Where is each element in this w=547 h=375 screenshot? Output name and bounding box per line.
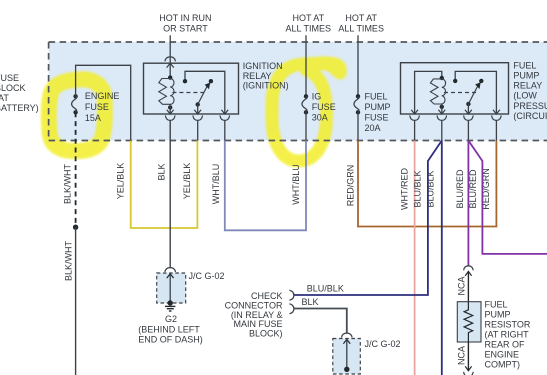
node: splice in right J/C G-02 (344, 367, 349, 372)
svg-text:(BEHIND LEFT: (BEHIND LEFT (138, 325, 200, 335)
switch arm of ignition relay (198, 86, 208, 105)
svg-text:J/C G-02: J/C G-02 (365, 339, 401, 349)
svg-text:PRESSURE: PRESSURE (513, 101, 547, 111)
wire BLK from check connector to J/C G-02 (right) (294, 309, 347, 334)
fuse block dashed border (left edge) (48, 42, 50, 141)
fuse block (hot-at-all-times bus) background (49, 42, 547, 141)
arrow into left J/C G-02 (167, 274, 174, 278)
wire: fuel pump relay switch pivot to pin 3 (467, 104, 469, 114)
wire: engine fuse loop up and over to YEL/BLK drop (76, 65, 131, 140)
svg-text:(AT RIGHT: (AT RIGHT (485, 330, 530, 340)
wire BLU/RED straight down to NCA break (467, 141, 469, 267)
svg-text:FUEL: FUEL (485, 300, 508, 310)
wire: switch pivot down to relay pin 2 (197, 105, 199, 115)
svg-text:FUSE: FUSE (85, 102, 109, 112)
connector arc above right J/C G-02 (342, 333, 353, 337)
svg-text:WHT/BLU: WHT/BLU (291, 164, 301, 205)
svg-text:G2: G2 (165, 314, 177, 324)
node: fuel pump relay switch pivot (466, 102, 470, 106)
coil of ignition relay (159, 75, 174, 109)
svg-text:HOT AT: HOT AT (292, 13, 324, 23)
svg-text:CHECK: CHECK (251, 291, 283, 301)
wire inside right J/C G-02 (346, 339, 348, 369)
label: HOT AT ALL TIMES (left) (286, 13, 332, 34)
wire NCA (lower) (467, 342, 469, 370)
connector (male arrow) at ignition relay top (167, 63, 174, 67)
label: CHECK CONNECTOR (IN RELAY & MAIN FUSE BLOCK) (225, 291, 283, 339)
fuse F1: ENGINE FUSE 15A (72, 94, 78, 114)
svg-text:YEL/BLK: YEL/BLK (182, 163, 192, 200)
wire: ignition relay top rail to bottom pin 3 (185, 71, 225, 114)
svg-text:BLOCK): BLOCK) (249, 329, 283, 339)
ground G2 symbol (165, 306, 175, 311)
relay K1: IGNITION RELAY box (144, 63, 239, 114)
label: HOT AT ALL TIMES (right) (338, 13, 384, 34)
node: ignition relay switch throw contact (209, 79, 213, 83)
wire: fuel pump fuse bottom stub (black inside box) (357, 112, 359, 140)
svg-text:WHT/BLU: WHT/BLU (211, 164, 221, 205)
svg-text:IG: IG (312, 92, 322, 102)
svg-text:NCA: NCA (457, 346, 467, 365)
NCA bottom cup (464, 372, 474, 375)
connector arrows at fuel pump relay bottom pins (410, 110, 501, 121)
svg-text:FUSE: FUSE (365, 113, 389, 123)
node: ground splice in left J/C G-02 (168, 300, 173, 305)
svg-text:BLK: BLK (157, 163, 167, 180)
svg-text:PUMP: PUMP (485, 310, 511, 320)
svg-text:30A: 30A (312, 113, 328, 123)
wire WHT/BLU from ignition relay pin 3 under to IG fuse drop (225, 141, 306, 231)
wire: fuel pump relay rail to pin 1 and coil (415, 71, 442, 114)
connector arc above left J/C G-02 (165, 268, 176, 272)
wire BLU/RED branch right and off page (468, 141, 547, 254)
svg-text:(CIRCUIT: (CIRCUIT (513, 111, 547, 121)
svg-text:BLK/WHT: BLK/WHT (64, 241, 74, 282)
wire: feed from HOT AT ALL TIMES to fuel pump fuse (357, 35, 359, 96)
svg-text:END OF DASH): END OF DASH) (138, 335, 203, 345)
connector (female arc) at ignition relay top (165, 57, 176, 61)
label: ENGINE FUSE 15A (85, 91, 120, 123)
svg-text:REAR OF: REAR OF (485, 340, 526, 350)
svg-text:ENGINE: ENGINE (85, 91, 120, 101)
svg-text:HOT IN RUN: HOT IN RUN (159, 13, 211, 23)
svg-text:J/C G-02: J/C G-02 (189, 271, 225, 281)
connector arrows at ignition relay bottom pins (165, 110, 229, 121)
NCA break: BLU/RED female arc (464, 266, 474, 270)
fuse block dashed border (top edge) (49, 41, 547, 43)
arrow into right J/C G-02 (343, 339, 350, 343)
label: HOT IN RUN OR START (159, 13, 211, 34)
svg-text:20A: 20A (365, 123, 381, 133)
relay K2: FUEL PUMP RELAY box (401, 63, 509, 114)
label: G2 (BEHIND LEFT END OF DASH) (138, 314, 203, 345)
svg-text:BLOCK: BLOCK (0, 83, 26, 93)
svg-text:BLU/RED: BLU/RED (455, 169, 465, 209)
wire WHT/RED from fuel pump relay pin 1 down (414, 141, 416, 375)
node: fuel pump relay stationary contact (453, 79, 457, 83)
node: ignition relay stationary contact (rail stub) (183, 79, 187, 83)
svg-text:OR START: OR START (163, 23, 208, 33)
wire stubs from relay/fuse cups down to fuse block edge (black) (198, 121, 497, 141)
resistor R1: FUEL PUMP RESISTOR box (457, 302, 481, 342)
svg-text:(IGNITION): (IGNITION) (243, 81, 289, 91)
wire BLK from ignition relay pin 1 down to J/C G-02 (169, 121, 171, 269)
dashed linkage between fuel pump relay coil and switch (444, 92, 477, 94)
junction connector J/C G-02 (right) box (333, 339, 361, 375)
svg-text:COMPT): COMPT) (485, 360, 521, 370)
svg-text:WHT/RED: WHT/RED (399, 168, 409, 210)
svg-text:15A: 15A (85, 113, 101, 123)
svg-text:RELAY: RELAY (243, 71, 272, 81)
svg-text:RESISTOR: RESISTOR (485, 320, 531, 330)
node: fuel pump relay switch throw contact (479, 79, 483, 83)
highlighter ring with tail around IG FUSE (272, 63, 340, 161)
label: FUSE BLOCK (AT BATTERY) (0, 73, 39, 113)
wire: coil bottom to relay pin 1 (169, 107, 171, 114)
NCA break: male arrow up (465, 271, 471, 275)
label: FUEL PUMP RESISTOR (AT RIGHT REAR OF ENGINE COMPT) (485, 300, 531, 370)
svg-text:PUMP: PUMP (513, 71, 539, 81)
svg-text:FUSE: FUSE (312, 102, 336, 112)
svg-text:FUEL: FUEL (513, 60, 536, 70)
wire BLK/WHT (dashed) from engine fuse down to splice (75, 112, 77, 227)
svg-text:NCA: NCA (457, 276, 467, 295)
svg-text:RELAY: RELAY (513, 81, 542, 91)
dashed linkage between coil and switch (172, 92, 203, 94)
wire YEL/BLK U-run joining engine fuse drop and relay pin 2 (131, 141, 198, 229)
svg-text:ENGINE: ENGINE (485, 350, 520, 360)
svg-text:(AT: (AT (0, 93, 9, 103)
svg-text:BLU/BLK: BLU/BLK (307, 284, 344, 294)
wire: feed from HOT IN RUN OR START to ignition relay (169, 35, 171, 63)
node: ignition relay switch pivot (196, 102, 200, 106)
svg-text:BLU/BLK: BLU/BLK (426, 170, 436, 207)
wire: relay feed into coil (169, 63, 171, 77)
wire: feed from HOT AT ALL TIMES to IG fuse (305, 35, 307, 96)
label: FUEL PUMP RELAY (LOW PRESSURE (CIRCUIT (513, 60, 547, 121)
splice node on BLK/WHT (73, 225, 78, 230)
svg-text:FUSE: FUSE (0, 73, 19, 83)
svg-text:BLK/WHT: BLK/WHT (62, 164, 72, 205)
svg-text:BLU/BLK: BLU/BLK (413, 170, 423, 207)
wire BLU/BLK branch to check connector (294, 141, 442, 296)
wire BLK/WHT solid below splice (75, 227, 77, 375)
label: IG FUSE 30A (312, 92, 336, 123)
fuse F2: IG FUSE 30A (302, 94, 308, 114)
check connector female arcs (290, 290, 294, 300)
svg-text:FUEL: FUEL (365, 92, 388, 102)
wire: fuel pump relay coil bottom to pin 2 (441, 107, 443, 114)
svg-text:BLK: BLK (302, 297, 319, 307)
svg-text:BLU/RED: BLU/RED (468, 169, 478, 209)
highlighter ring around ENGINE FUSE (49, 79, 105, 151)
svg-text:(LOW: (LOW (513, 91, 537, 101)
label: IGNITION RELAY (IGNITION) (243, 61, 289, 91)
wire inside left J/C G-02 (169, 274, 171, 303)
fuse block dashed border (bottom edge) (49, 140, 547, 142)
wire RED/GRN from fuel pump fuse around to relay pin 4 (358, 141, 496, 227)
switch arm of fuel pump relay (468, 86, 478, 104)
NCA bottom arrow (465, 366, 471, 370)
svg-text:RED/GRN: RED/GRN (346, 165, 356, 207)
wire: fuel pump relay switch rail to pin 4 (455, 71, 496, 114)
svg-text:PUMP: PUMP (365, 102, 391, 112)
junction connector J/C G-02 (left) box (157, 273, 186, 303)
coil of fuel pump relay (430, 76, 445, 109)
wire NCA (upper) (467, 271, 469, 302)
fuse F3: FUEL PUMP FUSE 20A (354, 94, 360, 114)
resistor zigzag (464, 302, 473, 342)
wire: IG fuse bottom stub (black inside box) (305, 112, 307, 140)
label: FUEL PUMP FUSE 20A (365, 92, 391, 134)
svg-text:HOT AT: HOT AT (345, 13, 377, 23)
svg-text:IGNITION: IGNITION (243, 61, 283, 71)
svg-text:ALL TIMES: ALL TIMES (338, 23, 384, 33)
wire BLU/BLK straight down (441, 141, 443, 375)
svg-text:ALL TIMES: ALL TIMES (286, 23, 332, 33)
svg-text:BATTERY): BATTERY) (0, 103, 39, 113)
svg-text:YEL/BLK: YEL/BLK (116, 163, 126, 200)
